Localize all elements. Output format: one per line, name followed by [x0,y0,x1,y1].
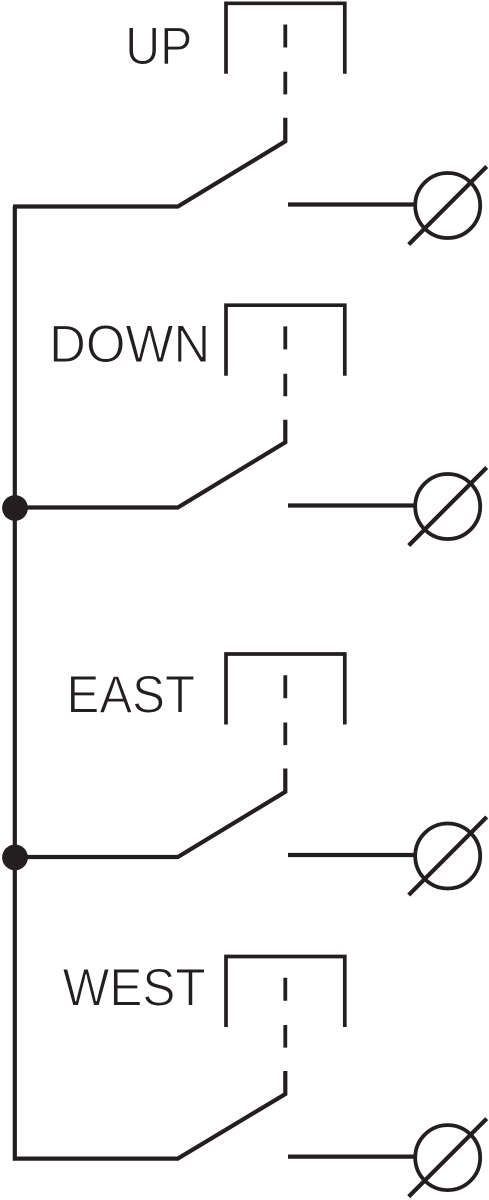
switch S3 fixed contact wire [288,853,414,857]
pushbutton actuator PB4 (WEST) bracket [226,957,345,1028]
switch S1 moving contact (UP) [13,118,285,207]
PB1 plunger dashed link [283,25,287,95]
lamp symbol L2 slash [409,468,487,546]
svg-text:UP: UP [125,17,192,76]
lamp symbol L1 circle [415,173,480,238]
svg-text:WEST: WEST [63,959,206,1018]
switch S4 moving contact (WEST) [178,1071,285,1159]
switch S4 fixed contact wire [288,1154,414,1158]
pushbutton actuator PB3 (EAST) bracket [226,654,345,725]
lamp symbol L2 circle [415,474,480,539]
PB2 plunger dashed link [283,326,287,396]
pushbutton actuator PB1 (UP) bracket [226,3,345,74]
junction node B dot [2,845,28,871]
lamp symbol L4 circle [415,1125,480,1190]
switch S2 moving contact (DOWN) [13,420,285,508]
svg-text:EAST: EAST [67,666,196,725]
lamp symbol L1 slash [409,167,487,245]
lamp symbol L4 slash [409,1119,487,1197]
svg-text:DOWN: DOWN [49,315,210,374]
PB4 plunger dashed link [283,978,287,1048]
switch S3 moving contact (EAST) [13,769,285,858]
PB3 plunger dashed link [283,675,287,745]
switch S2 fixed contact wire [288,503,414,507]
junction node A dot [2,495,28,521]
pushbutton actuator PB2 (DOWN) bracket [226,305,345,376]
wire: left vertical bus with bottom horizontal run [15,207,179,1159]
switch S1 fixed contact wire [288,202,414,206]
lamp symbol L3 circle [415,824,480,889]
lamp symbol L3 slash [409,817,487,895]
